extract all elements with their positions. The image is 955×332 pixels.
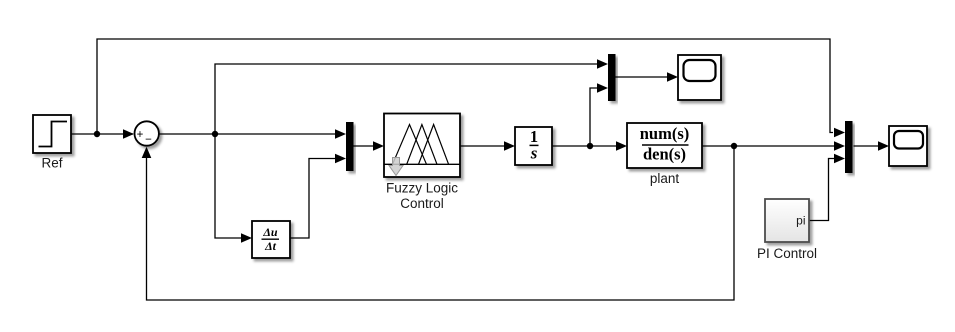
arrowhead into right mux input 2 — [834, 141, 845, 151]
block PI Control subsystem — [765, 199, 809, 242]
arrowhead into top mux input 2 — [597, 83, 608, 93]
mux right before right scope — [845, 121, 853, 173]
arrowhead into Integrator — [504, 141, 515, 151]
arrowhead into top mux input 1 — [597, 59, 608, 69]
mux Mux1 before fuzzy controller — [346, 122, 354, 171]
block Integrator 1/s — [515, 127, 552, 165]
arrowhead into Fuzzy block — [373, 141, 384, 151]
arrowhead into du/dt input — [241, 233, 252, 243]
block top Scope — [678, 55, 721, 100]
junction node on Sum output wire — [212, 131, 218, 137]
svg-text:Control: Control — [400, 196, 444, 211]
arrowhead into right scope — [878, 141, 889, 151]
arrowhead into right mux input 1 — [834, 128, 845, 138]
svg-text:pi: pi — [796, 213, 805, 227]
svg-text:Δt: Δt — [264, 239, 277, 253]
svg-text:Δu: Δu — [262, 225, 278, 239]
wire branch up from Ref junction along top to right mux — [97, 39, 833, 134]
sum junction — [135, 121, 159, 146]
svg-text:PI Control: PI Control — [757, 246, 817, 261]
junction node on Ref wire — [94, 131, 100, 137]
wire plant output to right mux input 2 — [702, 145, 834, 147]
wire Integrator output to plant — [552, 145, 616, 147]
wire branch down from junction to du/dt block — [215, 134, 241, 238]
mux top before top scope — [608, 54, 616, 101]
arrowhead into Sum left input — [123, 129, 134, 139]
wire branch up from integrator junction to top mux input 2 — [590, 88, 597, 146]
wire feedback from plant junction down and back to Sum — [147, 146, 735, 300]
svg-text:s: s — [530, 144, 538, 163]
junction node on plant output — [731, 143, 737, 149]
arrowhead into top scope — [667, 72, 678, 82]
svg-text:den(s): den(s) — [643, 144, 686, 163]
block plant transfer function — [627, 123, 702, 168]
wire right mux output to right scope — [854, 145, 879, 147]
arrowhead into Mux1 input 2 — [335, 154, 346, 164]
wire Ref output to Sum — [71, 133, 133, 135]
arrowhead into Mux1 input 1 — [335, 129, 346, 139]
wire branch up from junction to top mux input 1 — [215, 64, 597, 134]
arrowhead into plant — [616, 141, 627, 151]
wire top mux output to top scope — [616, 76, 668, 78]
wire du/dt output up to Mux1 input 2 — [290, 159, 335, 239]
svg-text:Ref: Ref — [41, 156, 62, 171]
wire Sum output to Mux1 input 1 — [160, 133, 336, 135]
block Ref step source — [33, 115, 71, 153]
junction node on integrator output — [587, 143, 593, 149]
wire Mux1 output to Fuzzy block — [354, 145, 374, 147]
block du/dt derivative — [252, 221, 290, 258]
arrowhead up into Sum bottom input — [142, 147, 152, 158]
svg-text:+: + — [137, 129, 144, 141]
fuzzy block gray defuzzify arrow — [389, 158, 403, 176]
svg-text:num(s): num(s) — [640, 124, 690, 143]
svg-text:Fuzzy Logic: Fuzzy Logic — [386, 181, 458, 196]
svg-text:−: − — [145, 134, 152, 146]
wire Fuzzy output to Integrator — [460, 145, 504, 147]
arrowhead into right mux input 3 — [834, 154, 845, 164]
block Fuzzy Logic Control — [384, 114, 460, 178]
block right Scope — [889, 126, 927, 166]
wire PI Control output up to right mux input 3 — [809, 159, 834, 221]
svg-text:plant: plant — [650, 171, 680, 186]
